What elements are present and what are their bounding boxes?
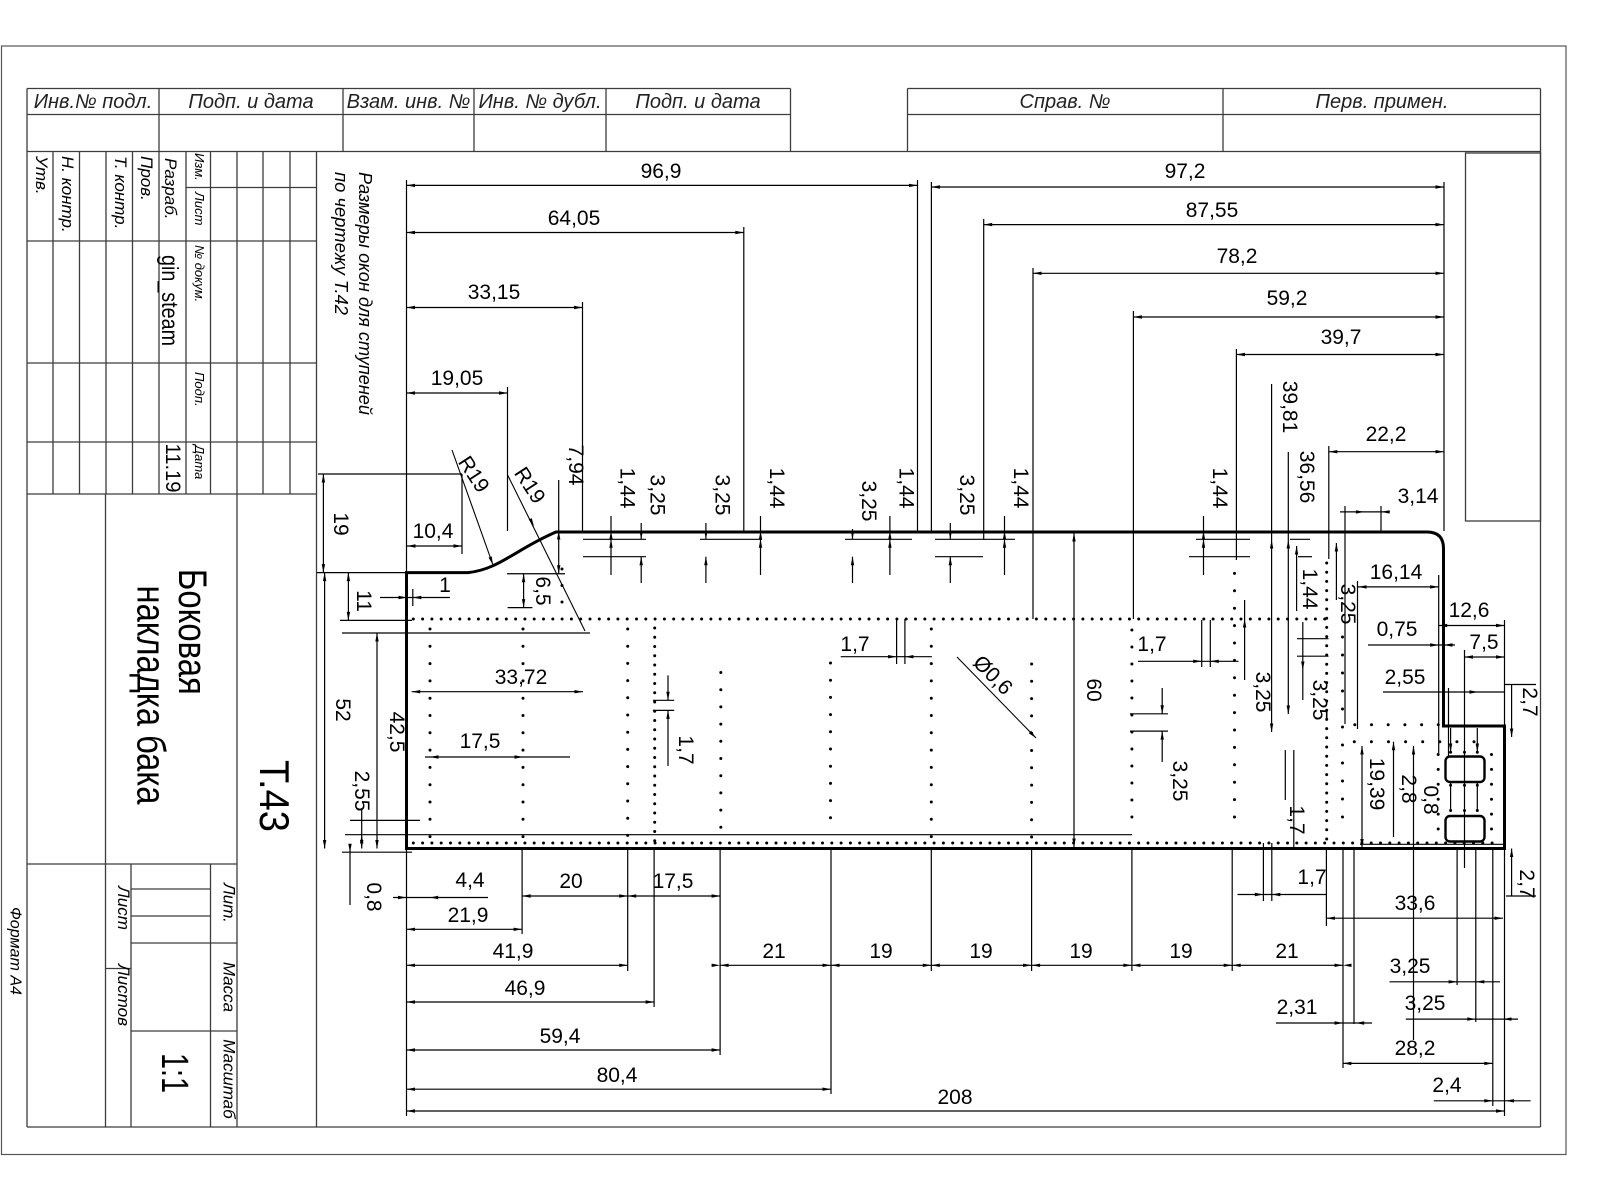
svg-text:41,9: 41,9 [493,940,534,963]
svg-text:60: 60 [1082,678,1105,701]
svg-text:39,81: 39,81 [1278,381,1301,434]
svg-text:Подп. и дата: Подп. и дата [188,91,313,113]
dim 3,25 br 2 [1406,1018,1518,1020]
ext 0.8 left [342,851,412,853]
dim 0,8 right [1413,746,1415,1040]
svg-text:1,7: 1,7 [840,633,869,656]
svg-text:42,5: 42,5 [385,712,408,753]
dim 1,44 col11 [1296,546,1298,611]
ext level 844.3 right [1360,843,1505,845]
svg-text:16,14: 16,14 [1370,561,1423,584]
svg-text:11.19: 11.19 [161,444,184,493]
inner frame right edge [1540,89,1542,1128]
dim 1 [380,597,450,599]
svg-text:1: 1 [439,574,451,597]
dim 21,9 [407,928,523,930]
ext 16.14 left [1357,581,1359,729]
rivet offset tick lines [583,538,646,540]
dim 7,94 [558,480,560,574]
ext 22.2 left [1328,446,1330,559]
ext 3.14 left [1344,506,1346,724]
dim 28,2 [1343,1062,1493,1064]
svg-text:3,25: 3,25 [1168,761,1191,802]
dim 19,05 [407,392,508,394]
tick win2 b [1476,783,1478,810]
dim 1,7 bottom right [1238,894,1328,896]
arrow win1 a [1449,744,1452,753]
dim 11 [347,573,349,621]
svg-text:0,75: 0,75 [1377,618,1418,641]
tick 700.3 [653,699,674,701]
ext 80.4 right [830,849,832,1095]
svg-text:3,25: 3,25 [1308,680,1331,721]
rivet col 4 dense [653,627,656,630]
svg-text:36,56: 36,56 [1295,451,1318,504]
svg-text:Размеры окон для ступеней: Размеры окон для ступеней [355,172,375,415]
rivet col 11 dense [1325,562,1328,565]
ext 19 chain 3 [1131,849,1133,972]
ext 46.9 right [653,849,655,1008]
dim 46,9 [407,1001,655,1003]
dim 2,31 [1276,1022,1372,1024]
dim 78,2 [1033,272,1444,274]
dim 1,7 right pair [1284,750,1286,800]
svg-text:Т.43: Т.43 [251,760,298,832]
ext 78.2 left [1032,268,1034,619]
svg-text:1,7: 1,7 [674,735,697,764]
rivet col 13 [1437,753,1440,756]
svg-text:3,25: 3,25 [1336,584,1359,625]
dim 2,8 [1393,742,1395,837]
ext 1.7 mid2 b [1209,620,1211,667]
svg-text:2,55: 2,55 [1385,666,1426,689]
rivet col 5 [719,671,722,674]
svg-text:78,2: 78,2 [1217,245,1258,268]
ext 2.55 top [350,819,420,821]
svg-text:0,8: 0,8 [362,882,385,911]
ext 1.7 bottom b [1271,843,1273,901]
dim 2,7 upper right [1511,685,1513,737]
dim 87,55 [984,224,1444,226]
dim 3,25 col11 lower [1302,622,1304,700]
ext 10.4 right [461,474,463,554]
part outline (thick) [407,532,1505,849]
ext 1.7 mid2 a [1201,620,1203,667]
svg-text:1,44: 1,44 [765,468,788,509]
ext 39.7 left [1235,349,1237,560]
dim 3,25 col10 [1244,600,1246,680]
ext 28.2 right [1492,849,1494,1107]
dim 80,4 [407,1088,832,1090]
ext 2.55 aux [1448,688,1450,758]
svg-text:19: 19 [869,940,892,963]
svg-text:по чертежу Т.42: по чертежу Т.42 [331,172,351,315]
dim 2,7 lower right [1511,849,1513,897]
rivet col 9 [1130,629,1133,632]
svg-text:2,31: 2,31 [1277,996,1318,1019]
svg-text:0,8: 0,8 [1419,785,1442,814]
svg-text:33,6: 33,6 [1395,892,1436,915]
svg-text:6,5: 6,5 [531,576,554,605]
ext 21.9 right [521,849,523,935]
svg-text:Подп.: Подп. [192,372,207,407]
ext 59.2 left [1132,311,1134,619]
svg-text:2,8: 2,8 [1397,774,1420,803]
tick win1 b [1476,728,1478,752]
dim 16,14 [1358,586,1439,588]
rivet col 3 [626,628,629,631]
svg-text:Взам. инв. №: Взам. инв. № [347,91,471,113]
dim 96,9 [407,184,918,186]
ext 33.15 right [582,302,584,531]
svg-text:19: 19 [1069,940,1092,963]
top table A: Inv/Podp columns [27,88,791,90]
svg-text:Подп. и дата: Подп. и дата [635,91,760,113]
svg-text:3,14: 3,14 [1398,485,1439,508]
ext 64.05 right [743,227,745,531]
leader diameter 0,6 [957,657,1036,738]
window hole 2 [1446,816,1485,842]
ext 11 bottom [340,619,412,621]
svg-text:№ докум.: № докум. [192,245,207,302]
dim 3,25 col11 upper [1335,543,1337,600]
ext 3.25b [1475,849,1477,1023]
dim chain 21 + 19x4 + 21 [720,964,1343,966]
dim 22,2 [1329,451,1444,453]
dim 1,7 mid 1 [841,656,932,658]
svg-text:80,4: 80,4 [597,1064,638,1087]
ext 87.55 left [983,219,985,540]
svg-text:Формат А4: Формат А4 [7,907,24,995]
svg-text:97,2: 97,2 [1165,160,1206,183]
svg-text:33,72: 33,72 [495,666,548,689]
svg-text:19,39: 19,39 [1365,758,1388,811]
rivet col 10 [1233,572,1236,575]
svg-text:1,7: 1,7 [1137,633,1166,656]
rivet col short [561,568,564,571]
svg-text:7,94: 7,94 [564,445,587,486]
dim 208 [407,1110,1505,1112]
tick 638.7 [1297,638,1329,640]
ext 2.31 right [1353,849,1355,1025]
svg-text:gin_steam: gin_steam [157,255,183,346]
dim 3,14 [1340,511,1390,513]
svg-text:20: 20 [559,870,582,893]
svg-text:Инв.№ подл.: Инв.№ подл. [34,91,153,113]
dim 0,8 left [349,849,351,906]
ext shoulder level [317,572,407,574]
dim 20 [522,895,628,897]
dim 17,5 mid [425,756,570,758]
tick win1 a [1450,728,1452,752]
svg-text:19,05: 19,05 [431,367,484,390]
svg-text:4,4: 4,4 [455,869,485,892]
dim 2,55 right [1383,691,1505,693]
window hole 1 [1446,757,1485,783]
svg-text:3,25: 3,25 [710,475,733,516]
svg-text:Масштаб: Масштаб [220,1039,239,1120]
dim 17,5 bottom [628,895,720,897]
svg-text:Листов: Листов [114,963,133,1026]
svg-text:2,7: 2,7 [1518,687,1541,716]
dim 97,2 [931,186,1444,188]
svg-text:19: 19 [969,940,992,963]
dim 33,6 [1326,917,1503,919]
dim 64,05 [407,232,744,234]
ext 1.7 mid a [896,619,898,664]
svg-text:1,44: 1,44 [1208,468,1231,509]
ext 59.4 right [719,849,721,1056]
ext level 474 [318,473,462,475]
dim 7,5 [1465,656,1505,658]
dim 41,9 [407,964,628,966]
dim 1,7 col4 rotated [667,675,669,700]
svg-text:33,15: 33,15 [468,281,521,304]
dim 12,6 [1439,625,1505,627]
svg-text:3,25: 3,25 [857,481,880,522]
svg-text:3,25: 3,25 [1251,672,1274,713]
svg-text:2,7: 2,7 [1515,869,1538,898]
leader R19 no.1 [452,450,493,565]
dim 3,25 br 1 [1390,981,1501,983]
ext 96.9 right [917,180,919,531]
rivet col 1 [429,628,432,631]
ext 1.7 mid b [904,619,906,664]
dim 36,56 [1287,452,1289,714]
ext right corner [1438,575,1440,753]
ext 19.05 right [507,387,509,531]
svg-text:21: 21 [1275,940,1298,963]
top table B: Sprav / Perv primen [908,88,1541,90]
svg-text:Справ. №: Справ. № [1020,91,1111,113]
svg-text:Разраб.: Разраб. [161,158,180,220]
arrow win1 b [1476,744,1479,753]
rivet col 12 [1341,636,1344,639]
ext lower right below [1504,849,1506,1117]
svg-text:52: 52 [331,698,354,721]
ext left edge bottom [406,849,408,1117]
svg-text:96,9: 96,9 [641,160,682,183]
ext 19 chain 4 [1231,849,1233,972]
ext 1.7 bottom a [1262,843,1264,901]
svg-text:46,9: 46,9 [505,977,546,1000]
rivet col 2 [522,628,525,631]
svg-text:19: 19 [1169,940,1192,963]
rivet row step upper [1353,723,1356,726]
dim 59,2 [1133,316,1444,318]
dim 39,81 [1271,384,1273,732]
svg-text:Дата: Дата [192,443,207,479]
svg-text:39,7: 39,7 [1321,326,1362,349]
rivet col 8 [1030,663,1033,666]
svg-text:накладка бака: накладка бака [129,586,173,806]
svg-text:Лист: Лист [114,885,133,930]
svg-text:1,7: 1,7 [1297,866,1326,889]
svg-text:Инв. № дубл.: Инв. № дубл. [479,91,602,113]
dim 33,72 [412,691,583,693]
ext 19 chain 1 [930,849,932,972]
dim 4,4 [393,897,488,899]
svg-text:3,25: 3,25 [646,475,669,516]
svg-text:3,25: 3,25 [1390,955,1431,978]
svg-text:3,25: 3,25 [955,475,978,516]
svg-text:Пров.: Пров. [137,156,156,201]
ext part right corner top [1443,182,1445,531]
dim 10,4 [407,545,462,547]
dim 19 left [322,474,324,573]
svg-text:1,44: 1,44 [1298,569,1321,610]
dim 39,7 [1236,354,1444,356]
svg-text:Утв.: Утв. [32,155,51,195]
ext 97.2 left [930,182,932,531]
rivet dots around windows [1449,751,1452,754]
svg-text:11: 11 [352,590,375,612]
svg-text:1,44: 1,44 [894,468,917,509]
dim 52 [324,573,326,849]
svg-text:17,5: 17,5 [653,870,694,893]
ext 19 chain 2 [1031,849,1033,972]
rivet row top [412,618,415,621]
dim 1,7 mid 2 [1138,660,1239,662]
tick 710.4 [653,709,674,711]
ext 21 right [1342,849,1344,1069]
dim 19,39 [1361,746,1363,848]
svg-text:1,44: 1,44 [616,468,639,509]
svg-text:2,55: 2,55 [350,771,373,812]
dim 42,5 [376,633,378,849]
dim 6,5 [523,574,525,608]
svg-text:Т. контр.: Т. контр. [111,156,130,229]
svg-text:1,7: 1,7 [1285,805,1308,834]
svg-text:19: 19 [329,512,352,535]
svg-text:Лист: Лист [192,191,207,226]
svg-text:17,5: 17,5 [460,730,501,753]
rivet col 14 [1490,753,1493,756]
svg-text:Боковая: Боковая [170,569,214,695]
svg-text:Лит.: Лит. [220,882,239,923]
rivet row step lower [1353,740,1356,743]
svg-text:87,55: 87,55 [1186,199,1239,222]
dim 2,55 left [361,810,363,849]
ext left edge top [406,180,408,573]
inner drawing frame left edge [26,89,28,1128]
tick 656.2 [1297,655,1329,657]
title block grid [27,240,317,242]
tick win2 a [1450,783,1452,810]
ext 7.94 bottom [507,573,565,575]
ext level 834.7 long [345,834,1132,836]
svg-text:Перв. примен.: Перв. примен. [1316,91,1449,113]
dim 33,15 [407,307,583,309]
svg-text:12,6: 12,6 [1449,599,1490,622]
svg-text:2,4: 2,4 [1432,1074,1462,1097]
ext 41.9 right [627,849,629,972]
svg-text:1:1: 1:1 [153,1053,195,1093]
ext dim 1 [412,589,414,606]
svg-text:64,05: 64,05 [548,207,601,230]
svg-text:21,9: 21,9 [448,904,489,927]
tall box right (perv primen column) [1466,153,1541,521]
ext 3.25a [1456,849,1458,986]
svg-text:59,2: 59,2 [1267,287,1308,310]
leader R19 no.2 [508,475,585,631]
svg-text:10,4: 10,4 [413,520,454,543]
svg-text:7,5: 7,5 [1469,631,1498,654]
dim 3,25 mid col9 [1130,713,1168,715]
ext lower right above step [1504,620,1506,726]
svg-text:28,2: 28,2 [1395,1037,1436,1060]
svg-text:59,4: 59,4 [540,1025,581,1048]
svg-text:1,44: 1,44 [1009,468,1032,509]
dim 59,4 [407,1049,721,1051]
ext 3.14 right [1380,506,1382,531]
svg-text:Масса: Масса [220,962,239,1012]
svg-text:3,25: 3,25 [1405,992,1446,1015]
dim 2,4 [1434,1100,1531,1102]
rivet col 6 [829,662,832,665]
rivet row bottom [412,842,415,845]
svg-text:22,2: 22,2 [1366,423,1407,446]
dim 60 [1073,533,1075,847]
inner frame bottom edge [27,1126,1541,1128]
ext 33.6 left [1325,849,1327,927]
svg-text:Изм.: Изм. [192,153,207,181]
ext 42.5 top [342,632,590,634]
rivet col 7 [930,628,933,631]
svg-text:Н. контр.: Н. контр. [58,156,77,233]
dim 0,75 [1368,644,1455,646]
svg-text:208: 208 [937,1086,972,1109]
ext window mid [1464,650,1466,868]
svg-text:21: 21 [762,940,785,963]
